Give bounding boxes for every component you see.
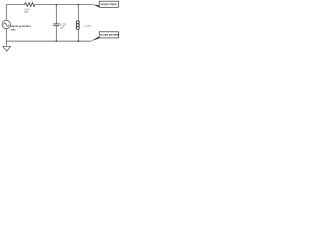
inductor L bottom lead bbox=[77, 30, 79, 41]
scope ground callout tail bbox=[91, 36, 100, 41]
svg-text:scope input: scope input bbox=[100, 2, 116, 6]
scope input callout box bbox=[99, 1, 118, 7]
svg-text:scope ground: scope ground bbox=[100, 33, 119, 37]
ground (open arrow) bbox=[3, 46, 11, 51]
wire top rail right segment bbox=[35, 4, 94, 6]
junction dot bottom L bbox=[78, 40, 80, 42]
wire top rail left segment bbox=[6, 5, 24, 20]
junction dot top C bbox=[56, 4, 58, 6]
svg-text:1 mH: 1 mH bbox=[84, 24, 91, 28]
svg-text:μF: μF bbox=[60, 25, 64, 29]
capacitor value label 0.25 uF bbox=[60, 23, 66, 30]
svg-text:signal generator: signal generator bbox=[10, 24, 31, 28]
junction dot bottom C bbox=[56, 40, 58, 42]
inductor L top lead bbox=[77, 5, 79, 21]
wire generator bottom to ground bbox=[5, 29, 7, 46]
capacitor C plates bbox=[53, 23, 59, 25]
inductor value label 1 mH bbox=[84, 24, 91, 28]
inductor L coil bbox=[76, 21, 79, 30]
scope input callout tail bbox=[93, 5, 99, 8]
capacitor C bottom lead bbox=[55, 26, 57, 41]
scope ground callout box bbox=[99, 32, 118, 38]
resistor R (zigzag) bbox=[25, 3, 36, 7]
capacitor C top lead bbox=[55, 5, 57, 24]
junction dot top L bbox=[78, 4, 80, 6]
wire bottom rail bbox=[6, 40, 91, 42]
signal generator source (circle with sine) bbox=[2, 20, 10, 28]
signal generator label bbox=[10, 24, 31, 31]
resistor value label 14 kΩ bbox=[24, 8, 30, 15]
